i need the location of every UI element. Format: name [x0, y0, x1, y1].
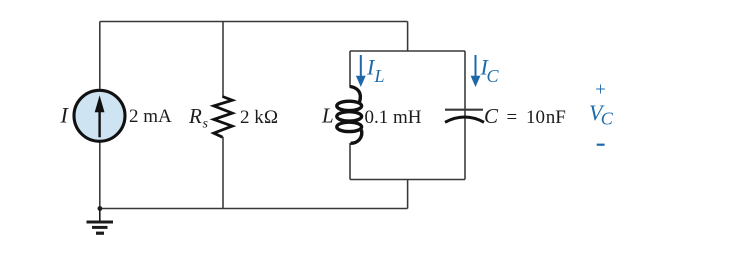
svg-text:L: L [321, 104, 334, 128]
svg-text:2 kΩ: 2 kΩ [240, 107, 278, 128]
svg-text:s: s [203, 117, 209, 132]
svg-text:C: C [487, 66, 500, 86]
svg-text:nF: nF [546, 107, 566, 128]
svg-text:R: R [188, 104, 202, 128]
svg-text:C: C [601, 109, 614, 129]
svg-text:0.1 mH: 0.1 mH [365, 107, 422, 128]
svg-text:10: 10 [526, 107, 545, 128]
svg-text:C: C [484, 104, 499, 128]
svg-text:2 mA: 2 mA [129, 106, 172, 127]
svg-text:I: I [60, 103, 70, 128]
svg-text:=: = [507, 107, 518, 128]
svg-text:L: L [374, 66, 385, 86]
svg-text:+: + [595, 80, 605, 100]
